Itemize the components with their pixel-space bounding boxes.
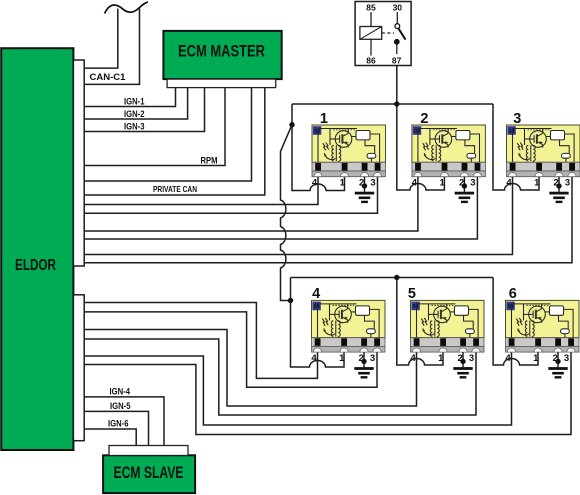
wire lower bus left leg to coil4 pin1 <box>291 278 345 368</box>
svg-text:1: 1 <box>534 178 540 189</box>
ELDOR upper connector J1 <box>73 60 84 266</box>
relay coil <box>360 27 382 40</box>
svg-text:3: 3 <box>565 178 570 189</box>
coil2 pin labels <box>412 178 476 189</box>
svg-text:1: 1 <box>533 353 539 364</box>
ignition coil module 4 <box>312 300 386 352</box>
ECU box ECM SLAVE <box>103 455 195 493</box>
ECM SLAVE connector <box>109 446 188 456</box>
wire CAN-C1 high <box>84 9 118 69</box>
wire IGN-1 <box>84 88 175 107</box>
svg-text:5: 5 <box>408 286 416 302</box>
wire ELDOR to coil3 pin4 <box>84 177 512 255</box>
relay switch pin 30 lead <box>396 12 398 24</box>
ground coil 6 pin 2 <box>548 352 567 378</box>
ground coil 4 pin 2 <box>354 352 373 378</box>
svg-text:CAN-C1: CAN-C1 <box>90 72 126 82</box>
svg-text:4: 4 <box>412 178 418 189</box>
ignition coil module 2 <box>412 125 486 177</box>
svg-text:30: 30 <box>393 3 403 13</box>
svg-text:IGN-2: IGN-2 <box>124 109 145 119</box>
svg-text:4: 4 <box>506 178 512 189</box>
wire IGN-2 <box>84 88 187 119</box>
svg-text:IGN-3: IGN-3 <box>124 121 145 131</box>
junction lower bus left leg <box>288 298 293 303</box>
ELDOR lower connector J2 <box>73 295 84 441</box>
wire CAN-C1 low <box>84 9 139 85</box>
relay contact pin 87 lead <box>396 45 398 55</box>
coil4 pin labels <box>311 353 375 364</box>
wire ELDOR to coil4 pin4 <box>84 303 317 379</box>
svg-text:3: 3 <box>370 353 375 364</box>
svg-text:4: 4 <box>410 353 416 364</box>
coil1 pin labels <box>312 178 376 189</box>
coil3 pin labels <box>506 178 570 189</box>
wire RPM <box>84 88 225 166</box>
wire top supply bus <box>292 103 493 105</box>
ECU box ELDOR <box>1 48 73 450</box>
coil6 pin labels <box>505 353 569 364</box>
svg-text:3: 3 <box>370 178 375 189</box>
svg-text:3: 3 <box>564 353 569 364</box>
ground coil 2 pin 2 <box>455 177 474 203</box>
svg-text:87: 87 <box>392 56 402 66</box>
wire PRIVATE CAN high <box>84 88 251 181</box>
svg-text:6: 6 <box>509 286 517 302</box>
svg-text:RPM: RPM <box>201 155 218 165</box>
relay switch blade <box>398 28 405 39</box>
wire ELDOR to coil5 pin4 <box>84 330 416 407</box>
wire IGN-3 <box>84 88 204 132</box>
svg-text:1: 1 <box>340 178 346 189</box>
relay coil pin 85 lead <box>370 12 372 27</box>
junction relay bus <box>394 101 399 106</box>
wire ELDOR to coil1 pin3 <box>84 177 377 214</box>
wire bus right leg to coil3 pin1 <box>493 104 539 190</box>
ECU box ECM MASTER <box>163 31 281 79</box>
svg-text:1: 1 <box>440 178 446 189</box>
svg-text:3: 3 <box>470 178 475 189</box>
wire ELDOR to coil2 pin3 <box>84 177 477 239</box>
wire ELDOR to coil3 pin3 <box>84 177 572 263</box>
svg-text:ELDOR: ELDOR <box>15 257 56 274</box>
wire ELDOR to coil2 pin4 <box>84 177 418 231</box>
svg-text:4: 4 <box>312 178 318 189</box>
ignition coil module 1 <box>312 125 386 177</box>
svg-text:85: 85 <box>366 3 376 13</box>
wire IGN-5 <box>84 411 148 445</box>
ground coil 1 pin 2 <box>355 177 374 203</box>
relay K1 box <box>355 2 411 66</box>
junction bus left leg <box>289 122 294 127</box>
wire lower supply bus <box>291 277 494 279</box>
svg-text:86: 86 <box>366 56 376 66</box>
svg-text:IGN-6: IGN-6 <box>108 418 129 428</box>
svg-text:2: 2 <box>420 111 428 127</box>
ground coil 3 pin 2 <box>549 177 568 203</box>
svg-text:IGN-4: IGN-4 <box>110 386 131 396</box>
ground coil 5 pin 2 <box>453 352 472 378</box>
svg-text:ECM SLAVE: ECM SLAVE <box>114 463 184 482</box>
wire ELDOR to coil6 pin3 <box>84 352 571 434</box>
CAN bus break squiggle <box>105 2 148 14</box>
ignition coil module 6 <box>506 300 580 352</box>
svg-text:1: 1 <box>339 353 345 364</box>
wire diagonal branch to lower bank <box>281 125 293 301</box>
wire ELDOR to coil4 pin3 <box>84 312 377 387</box>
svg-text:IGN-1: IGN-1 <box>124 96 145 106</box>
wire lower bus right leg to coil6 pin1 <box>493 278 538 366</box>
svg-text:3: 3 <box>469 353 474 364</box>
wire IGN-6 <box>84 429 136 446</box>
wire bus left leg to coil1 pin1 <box>292 104 345 191</box>
relay coil pin 86 lead <box>370 39 372 55</box>
relay switch pivot <box>395 24 400 29</box>
wire PRIVATE CAN low <box>84 88 265 195</box>
relay actuation dashed link <box>382 32 394 34</box>
svg-text:IGN-5: IGN-5 <box>110 401 131 411</box>
wire ELDOR to coil5 pin3 <box>84 339 476 415</box>
coil5 pin labels <box>410 353 474 364</box>
wire ELDOR to coil1 pin4 <box>84 177 318 205</box>
junction lower bus mid <box>394 275 399 280</box>
svg-text:3: 3 <box>513 111 521 127</box>
ECM MASTER connector <box>167 79 276 88</box>
svg-text:4: 4 <box>312 286 320 302</box>
wire bus mid leg to coil2 pin1 <box>397 104 445 190</box>
svg-text:4: 4 <box>311 353 317 364</box>
wire relay 87 drop <box>396 65 398 104</box>
relay switch contact dot <box>394 39 400 45</box>
wire lower bus mid leg to coil5 pin1 <box>397 278 443 366</box>
svg-text:PRIVATE CAN: PRIVATE CAN <box>153 184 197 194</box>
svg-text:1: 1 <box>438 353 444 364</box>
svg-text:1: 1 <box>320 111 328 127</box>
ignition coil module 5 <box>411 300 485 352</box>
svg-text:ECM MASTER: ECM MASTER <box>178 43 265 61</box>
wire IGN-4 <box>84 397 164 446</box>
wire ELDOR to coil6 pin4 <box>84 352 511 425</box>
svg-text:4: 4 <box>505 353 511 364</box>
ignition coil module 3 <box>507 125 580 177</box>
